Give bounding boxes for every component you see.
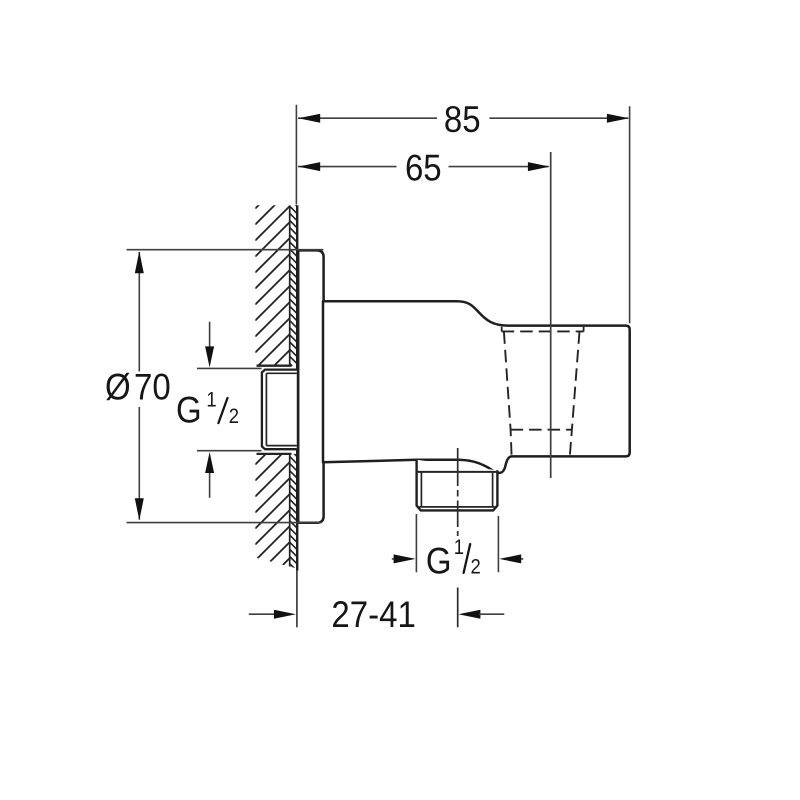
G1/2 bottom right arrow [519, 558, 523, 560]
escutcheon wall plate (D70) [298, 250, 323, 522]
G1/2 left upper arrow shaft [209, 322, 211, 348]
svg-text:G: G [176, 389, 202, 430]
dim 65 right arrow [528, 162, 550, 171]
outlet thread shoulder [417, 471, 498, 473]
G1/2 left lower extension line [197, 450, 262, 452]
outlet nipple outline [417, 460, 498, 511]
dim D70 bottom extension line [127, 522, 322, 524]
dim 65 line left segment [298, 166, 397, 168]
wall line extension down (for 27-41) [296, 571, 298, 628]
dim 85 left extension line [295, 105, 297, 205]
dim D70 top extension line [127, 249, 324, 251]
dim 85 right arrow [607, 114, 629, 123]
G1/2 left upper arrow head [205, 346, 214, 367]
dim 65 right extension line [550, 152, 552, 478]
dim 65 line right segment [449, 166, 549, 168]
holder cone left tick [501, 327, 503, 332]
dim 85 right extension line [629, 106, 631, 323]
svg-text:Ø70: Ø70 [105, 366, 171, 407]
dim 27-41 left arrow [274, 610, 296, 619]
dim D70 text background [103, 372, 177, 408]
svg-text:85: 85 [444, 99, 481, 140]
holder cone left side dashed [504, 331, 512, 456]
outlet centre line lower segment [457, 588, 459, 628]
holder cone top dashed [502, 330, 584, 332]
dim 85 left arrow [298, 114, 320, 123]
wall opening bottom edge [257, 453, 292, 455]
holder cone right side dashed [570, 331, 580, 456]
holder cone bottom dashed [511, 429, 572, 431]
holder cone right tick [583, 327, 585, 332]
dim D70 vertical line [138, 252, 140, 520]
dim 27-41 right arrow [458, 610, 480, 619]
dim 27-41 left tail [249, 613, 276, 615]
dim D70 top arrow [135, 251, 144, 273]
wall opening top edge [257, 365, 292, 367]
dim D70 bottom arrow [135, 498, 144, 520]
dim 27-41 right tail [479, 613, 504, 615]
outlet thread bottom [419, 506, 495, 508]
outlet thread inner left [420, 472, 422, 507]
svg-text:2: 2 [229, 405, 239, 428]
outlet thread inner right [492, 472, 494, 507]
inlet thread bushing G1/2 [262, 370, 297, 450]
G1/2 bottom right extension line [497, 516, 499, 572]
dim 85 line left segment [298, 117, 437, 119]
svg-text:1: 1 [454, 536, 464, 559]
inlet thread inner lines [265, 373, 267, 445]
svg-text:2: 2 [471, 555, 481, 578]
G1/2 bottom left arrow [392, 558, 397, 560]
svg-text:27-41: 27-41 [331, 594, 415, 635]
svg-text:1: 1 [206, 388, 216, 411]
union body outline [323, 301, 630, 473]
G1/2 left upper extension line [197, 367, 262, 369]
svg-text:G: G [426, 541, 452, 582]
outlet nipple fill [417, 460, 498, 511]
G1/2 left lower arrow head [205, 452, 214, 473]
G1/2 bottom left extension line [415, 514, 417, 572]
wall surface line [296, 205, 298, 570]
dim 65 left arrow [298, 162, 320, 171]
svg-text:65: 65 [405, 148, 442, 189]
dim 85 line right segment [490, 117, 629, 119]
outlet centre line (dash-dot) [457, 448, 459, 536]
G1/2 left lower arrow shaft [209, 472, 211, 498]
